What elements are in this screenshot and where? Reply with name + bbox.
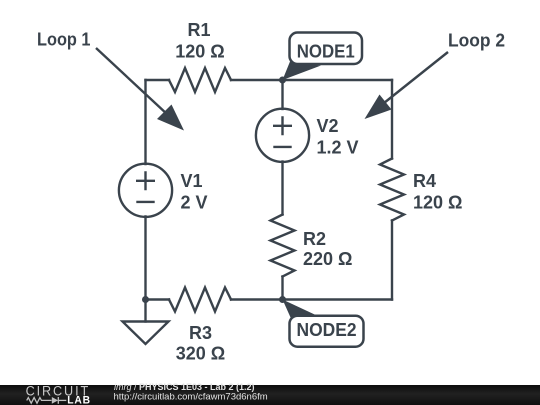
ground stub [144,300,146,322]
svg-text:imrg / PHYSICS 1E03 - Lab 2 (1: imrg / PHYSICS 1E03 - Lab 2 (1.2) [114,382,255,392]
wire bottom-right segment [231,298,392,300]
svg-text:R2: R2 [303,229,326,249]
voltage source V1 [119,164,172,217]
wire left vertical (bottom) [144,217,146,300]
NODE1 callout wedge [283,62,322,81]
svg-text:R4: R4 [413,171,436,191]
svg-text:Loop 1: Loop 1 [37,29,91,49]
NODE1 label box [290,33,363,65]
svg-text:120 Ω: 120 Ω [413,193,462,213]
Loop 1 arrowhead [157,105,184,131]
wire V2 to R2 [281,162,283,215]
svg-text:1.2 V: 1.2 V [317,138,359,158]
svg-text:220 Ω: 220 Ω [303,249,352,269]
svg-text:Loop 2: Loop 2 [448,31,505,51]
resistor R4 [380,159,404,221]
node C junction dot [142,296,149,303]
resistor R1 [169,68,231,92]
svg-text:R3: R3 [189,323,212,343]
wire right vertical (top) [391,80,393,159]
NODE2 callout wedge [283,300,321,319]
node A junction dot [279,77,286,84]
svg-text:R1: R1 [187,20,210,40]
footer logo resistor-diode symbol [27,397,67,404]
svg-text:NODE2: NODE2 [297,320,357,340]
svg-text:NODE1: NODE1 [297,42,355,62]
svg-text:120 Ω: 120 Ω [175,42,224,62]
NODE2 label box [290,316,364,347]
ground [123,322,169,345]
svg-text:2 V: 2 V [181,193,208,213]
wire top-left segment [146,79,170,81]
footer bar [0,385,540,405]
wire node1 to V2 [281,80,283,109]
resistor R3 [169,288,231,312]
svg-text:V2: V2 [317,116,339,136]
wire R2 to node2 [281,277,283,300]
wire left vertical (top) [144,80,146,164]
node B junction dot [279,296,286,303]
wire right vertical (bottom) [391,221,393,300]
wire top-right segment [231,79,392,81]
Loop 2 arrow line [384,52,448,103]
voltage source V2 [256,109,309,162]
svg-text:LAB: LAB [67,394,91,405]
Loop 2 arrowhead [365,95,392,120]
wire bottom-left segment [146,298,170,300]
Loop 1 arrow line [96,48,168,115]
resistor R2 [271,215,295,277]
svg-text:320 Ω: 320 Ω [176,344,225,364]
svg-text:http://circuitlab.com/cfawm73d: http://circuitlab.com/cfawm73d6n6fm [114,392,268,403]
svg-text:V1: V1 [181,171,203,191]
